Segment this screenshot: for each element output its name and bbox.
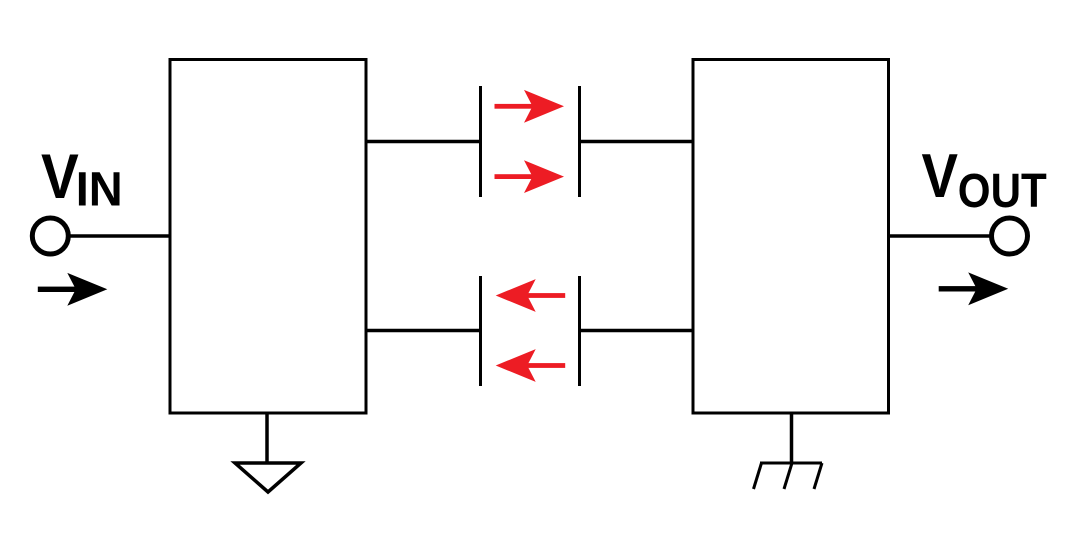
svg-text:IN: IN <box>76 164 123 217</box>
svg-text:V: V <box>41 142 79 212</box>
svg-text:V: V <box>922 142 959 211</box>
svg-text:OUT: OUT <box>958 164 1047 218</box>
